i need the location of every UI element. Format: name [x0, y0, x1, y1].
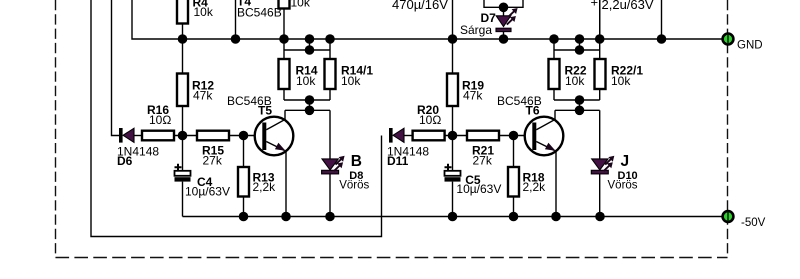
transistor T6 BC546B [497, 94, 563, 217]
svg-text:470µ/16V: 470µ/16V [392, 0, 448, 12]
svg-text:27k: 27k [473, 153, 493, 167]
junction dots -50V rail [239, 212, 605, 222]
svg-text:2,2k: 2,2k [253, 180, 277, 194]
svg-text:GND: GND [737, 40, 763, 52]
svg-text:10k: 10k [565, 74, 585, 88]
svg-text:2,2k: 2,2k [523, 180, 547, 194]
resistor R19 47k [447, 39, 484, 136]
diode D6 1N4148 [117, 128, 159, 168]
wire feed A: from top, down left side, along bottom, up to D11 [91, 0, 382, 237]
wire: T6 collector to D10 [555, 109, 600, 111]
resistor R21 27k [467, 131, 532, 168]
resistor R20 10Ω [413, 103, 467, 140]
wire [452, 0, 454, 39]
resistor R13 2,2k [238, 136, 276, 217]
svg-text:BC546B: BC546B [237, 6, 282, 20]
svg-text:10k: 10k [194, 5, 214, 19]
resistor pair R14 / R14/1 [279, 39, 374, 110]
node GND terminal [723, 34, 763, 52]
svg-text:Sárga: Sárga [460, 23, 492, 37]
LED D8 B Vörös [322, 153, 370, 217]
dashed enclosure border right [727, 0, 729, 258]
junction dots GND rail [178, 34, 667, 44]
wire feed B: from top down to D6 [112, 0, 120, 136]
capacitor C4 10µ/63V [175, 136, 230, 217]
capacitor C5 10µ/63V [445, 136, 502, 217]
svg-text:10k: 10k [291, 0, 311, 9]
LED D7 Sárga [460, 0, 523, 39]
svg-text:+: + [591, 0, 599, 10]
wire [599, 110, 601, 158]
wire: T5 collector to D8 [285, 109, 330, 111]
capacitor 2,2u/63V label + lead (component cropped) [591, 0, 654, 39]
svg-text:47k: 47k [193, 89, 213, 103]
svg-text:10µ/63V: 10µ/63V [456, 182, 501, 196]
wire: -50V rail [183, 216, 729, 218]
svg-text:B: B [351, 153, 362, 170]
resistor R16 10Ω [142, 103, 197, 140]
node -50V terminal [723, 211, 766, 229]
svg-text:D6: D6 [117, 154, 133, 168]
resistor 10k (top, cropped) [279, 0, 311, 39]
dashed enclosure border bottom [56, 257, 728, 259]
svg-text:T5: T5 [258, 104, 272, 118]
svg-text:-50V: -50V [741, 217, 766, 229]
resistor R18 2,2k [508, 136, 546, 217]
resistor pair R22 / R22/1 [549, 0, 644, 110]
svg-text:2,2u/63V: 2,2u/63V [602, 0, 654, 12]
svg-text:10k: 10k [611, 74, 631, 88]
svg-text:Vörös: Vörös [339, 179, 369, 191]
svg-text:10k: 10k [296, 74, 316, 88]
transistor T4 (cropped, lead only) [236, 0, 282, 39]
svg-text:10Ω: 10Ω [149, 113, 171, 127]
wire: GND rail with left corner up [132, 0, 728, 39]
resistor R12 47k [177, 39, 214, 136]
resistor R4 (top, cropped) [177, 0, 214, 39]
wire [329, 110, 331, 158]
svg-text:10k: 10k [341, 74, 361, 88]
svg-text:J: J [621, 153, 630, 170]
svg-text:D11: D11 [387, 154, 409, 168]
svg-text:47k: 47k [463, 89, 483, 103]
svg-text:27k: 27k [203, 153, 223, 167]
wire [661, 0, 663, 39]
diode D11 1N4148 [387, 128, 429, 168]
resistor R15 27k [197, 131, 262, 168]
svg-text:T6: T6 [526, 104, 540, 118]
transistor T5 BC546B [227, 94, 293, 217]
dashed enclosure border left [55, 0, 57, 258]
LED D10 J Vörös [591, 153, 637, 217]
svg-text:10µ/63V: 10µ/63V [185, 184, 230, 198]
junction dots mid nodes [178, 3, 585, 141]
svg-text:10Ω: 10Ω [419, 113, 441, 127]
svg-text:Vörös: Vörös [608, 179, 638, 191]
